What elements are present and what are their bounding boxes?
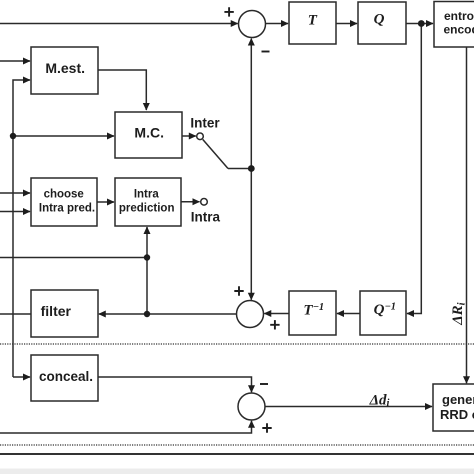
svg-text:Intra: Intra [191,209,221,224]
svg-text:T: T [308,12,318,28]
svg-text:Q: Q [374,12,385,28]
svg-text:entropy: entropy [444,9,474,23]
svg-text:filter: filter [41,303,72,319]
svg-text:RRD co: RRD co [440,407,474,422]
svg-text:Q−1: Q−1 [374,302,396,318]
svg-text:Δdi: Δdi [369,392,390,409]
svg-text:ΔRi: ΔRi [450,302,468,325]
svg-text:encoder: encoder [444,23,474,37]
svg-text:generate: generate [442,392,474,407]
svg-text:conceal.: conceal. [39,369,93,384]
svg-text:Intra: Intra [134,189,160,201]
svg-text:prediction: prediction [119,203,175,215]
svg-text:Inter: Inter [190,116,220,131]
svg-text:Intra pred.: Intra pred. [39,202,95,214]
svg-text:M.est.: M.est. [45,60,85,76]
svg-text:T−1: T−1 [303,302,324,318]
svg-text:choose: choose [44,189,84,201]
svg-text:M.C.: M.C. [134,125,164,141]
